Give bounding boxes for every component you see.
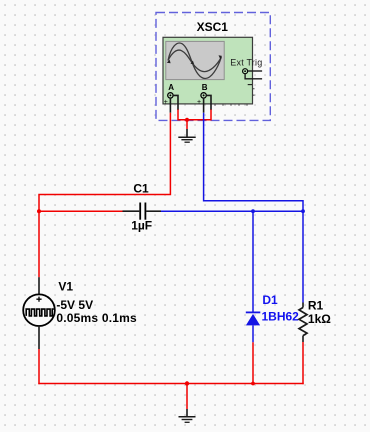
wire: node down to R1 (blue) (302, 211, 304, 302)
node: rail-D1 junction (251, 382, 255, 386)
wire: branch to C1 (red) (39, 210, 123, 212)
pin A right lead (black) (173, 95, 178, 110)
capacitor C1 leads (123, 210, 140, 212)
svg-text:C1: C1 (133, 181, 149, 195)
svg-text:D1: D1 (262, 293, 278, 307)
V1 plus mark (36, 297, 41, 302)
oscilloscope sine wave icon (168, 43, 221, 78)
wire: ground stem red (186, 120, 188, 129)
node: rail-ground junction (185, 381, 189, 385)
pin B right lead (black) (206, 95, 211, 110)
wire: scope A+ down, across to V1 top (39, 113, 170, 278)
wire: R1 to rail (red) (302, 342, 304, 384)
svg-text:1BH62: 1BH62 (262, 310, 300, 324)
node: R1 tap (301, 209, 305, 213)
pin A left lead (black) (169, 98, 171, 113)
wire: C1 to D1/R1 node (blue) (161, 210, 303, 212)
svg-text:1kΩ: 1kΩ (308, 312, 331, 326)
V1 square wave glyph (26, 309, 54, 316)
ground (bottom) (179, 409, 196, 422)
ground (scope) (178, 129, 195, 142)
svg-text:V1: V1 (58, 280, 73, 294)
svg-text:A: A (168, 83, 174, 92)
resistor R1 zigzag (299, 308, 307, 336)
terminal A (168, 93, 173, 98)
wire: rail to bottom ground (red) (186, 384, 188, 410)
wire: V1 bottom to rail (red) (38, 349, 40, 384)
svg-text:1µF: 1µF (131, 219, 152, 233)
terminal B (201, 93, 206, 98)
wire: bottom rail (red) (38, 383, 303, 385)
oscilloscope XSC1 dashed selection box (156, 13, 270, 121)
svg-text:XSC1: XSC1 (197, 20, 229, 34)
resistor R1 bottom lead (black) (302, 336, 304, 342)
node: scope ground junction (185, 118, 189, 122)
scope bottom edge pin ticks (215, 104, 247, 106)
wire: scope B+ down (blue) (204, 113, 303, 212)
voltage source V1 lead top (black) (38, 277, 40, 294)
svg-text:+: + (164, 99, 168, 106)
resistor R1 top lead (black) (302, 303, 304, 308)
node junction at V1/C1 (37, 209, 41, 213)
node: D1 tap (251, 209, 255, 213)
wire: scope A- to ground net (178, 110, 211, 120)
diode D1 symbol (246, 311, 260, 313)
wire: node down to D1 (blue) (252, 211, 254, 312)
svg-text:+: + (197, 99, 201, 106)
pin B left lead (black) (203, 98, 205, 113)
voltage source V1 body (23, 294, 55, 326)
svg-text:R1: R1 (308, 299, 324, 313)
wire: D1 to rail (red) (252, 342, 254, 383)
svg-text:0.05ms 0.1ms: 0.05ms 0.1ms (56, 311, 137, 325)
diode D1 bottom lead (blue) (252, 325, 254, 342)
oscilloscope screen (166, 41, 224, 79)
voltage source V1 lead bottom (black) (38, 326, 40, 349)
svg-text:B: B (202, 83, 208, 92)
capacitor C1 plates (139, 203, 141, 220)
Ext Trig terminal (243, 69, 248, 74)
svg-text:Ext Trig: Ext Trig (230, 58, 262, 68)
op-amp body: oscilloscope green body (163, 37, 253, 104)
